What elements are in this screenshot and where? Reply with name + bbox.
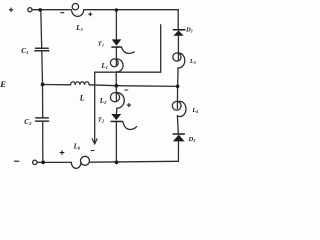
thyristor T2	[111, 114, 121, 120]
svg-text:T1: T1	[98, 40, 104, 47]
svg-text:L4: L4	[191, 107, 198, 114]
capacitor C2	[36, 118, 49, 121]
plus L6 left	[60, 151, 64, 155]
svg-text:L6: L6	[73, 142, 81, 150]
svg-text:D2: D2	[188, 136, 197, 143]
thyristor T1	[112, 39, 122, 45]
svg-text:T2: T2	[98, 116, 105, 123]
inductor L6	[71, 156, 89, 168]
svg-text:L3: L3	[189, 58, 196, 65]
plus L5 right	[89, 13, 92, 16]
plus top-left	[9, 8, 12, 12]
inductor L1	[110, 59, 123, 72]
inductor L4	[172, 101, 186, 116]
svg-text:L2: L2	[99, 97, 107, 105]
svg-text:L1: L1	[100, 62, 108, 70]
wire top rail	[32, 9, 178, 11]
minus L6 right	[91, 150, 94, 152]
plus L2 bottom	[127, 103, 130, 106]
svg-text:L: L	[79, 93, 85, 102]
wire left rail	[41, 10, 43, 162]
node dot center output	[115, 84, 119, 88]
node dot top-left	[38, 8, 42, 12]
diode D2	[173, 133, 185, 135]
node dot E junction	[41, 83, 45, 87]
wire bottom rail	[37, 161, 178, 162]
terminal top-left	[28, 8, 32, 12]
inductor L3	[173, 53, 185, 68]
inductor L2	[110, 93, 124, 109]
svg-text:L5: L5	[75, 24, 83, 32]
thyristor T2 gate	[123, 122, 137, 130]
thyristor T1 gate	[122, 47, 135, 53]
terminal bottom-left	[33, 160, 37, 164]
diode D1	[173, 29, 186, 31]
node dot bottom-left	[41, 161, 45, 165]
node dot bottom-center	[115, 160, 119, 164]
minus bottom-left	[14, 160, 18, 162]
node dot top-center	[115, 8, 119, 12]
svg-text:C1: C1	[21, 46, 28, 55]
wire right rail	[177, 10, 178, 162]
node dot right output	[176, 85, 180, 89]
svg-text:C2: C2	[24, 117, 32, 126]
arrow annotation down	[92, 72, 97, 144]
wire A to riser	[95, 25, 161, 72]
minus L5 left	[61, 12, 64, 14]
inductor L load coil	[71, 82, 90, 85]
minus L2 top	[125, 89, 128, 91]
capacitor C1	[35, 48, 49, 51]
svg-text:E: E	[0, 79, 6, 89]
wire load branch	[43, 85, 179, 87]
inductor L5	[72, 3, 84, 16]
svg-text:D1: D1	[185, 26, 193, 33]
wire center vertical	[115, 10, 118, 163]
